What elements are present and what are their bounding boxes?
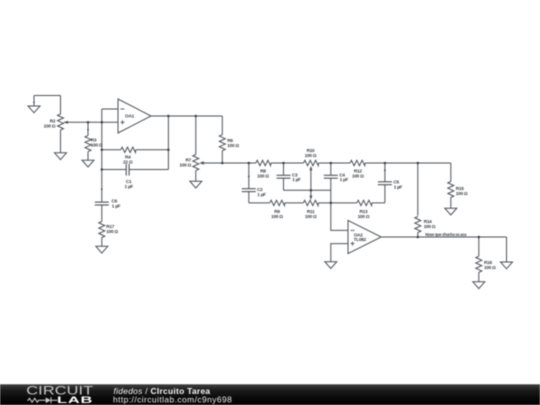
- svg-text:22 Ω: 22 Ω: [123, 160, 133, 165]
- svg-text:1 µF: 1 µF: [257, 192, 266, 197]
- svg-text:1 µF: 1 µF: [340, 177, 349, 182]
- svg-text:TL082: TL082: [354, 237, 367, 242]
- svg-text:100 Ω: 100 Ω: [484, 265, 496, 270]
- svg-text:100 Ω: 100 Ω: [352, 174, 364, 179]
- svg-text:100 Ω: 100 Ω: [44, 123, 56, 128]
- svg-text:100 Ω: 100 Ω: [424, 224, 436, 229]
- svg-text:100 Ω: 100 Ω: [257, 173, 269, 178]
- svg-text:100 Ω: 100 Ω: [271, 214, 283, 219]
- svg-text:100 Ω: 100 Ω: [106, 229, 118, 234]
- svg-text:Nose que chucha va aca: Nose que chucha va aca: [425, 232, 467, 237]
- svg-text:LAB: LAB: [57, 395, 93, 405]
- svg-text:1 µF: 1 µF: [394, 184, 403, 189]
- svg-text:http://circuitlab.com/c9ny698: http://circuitlab.com/c9ny698: [113, 395, 232, 405]
- svg-text:100 Ω: 100 Ω: [305, 214, 317, 219]
- svg-text:1 µF: 1 µF: [112, 203, 121, 208]
- svg-text:100 Ω: 100 Ω: [358, 214, 370, 219]
- svg-text:100 Ω: 100 Ω: [456, 191, 468, 196]
- svg-text:1 µF: 1 µF: [125, 184, 134, 189]
- svg-text:100 Ω: 100 Ω: [179, 163, 191, 168]
- svg-text:100 Ω: 100 Ω: [227, 143, 239, 148]
- svg-text:1 µF: 1 µF: [292, 177, 301, 182]
- svg-text:100 Ω: 100 Ω: [91, 143, 103, 148]
- svg-text:100 Ω: 100 Ω: [305, 153, 317, 158]
- svg-text:OA1: OA1: [125, 114, 135, 119]
